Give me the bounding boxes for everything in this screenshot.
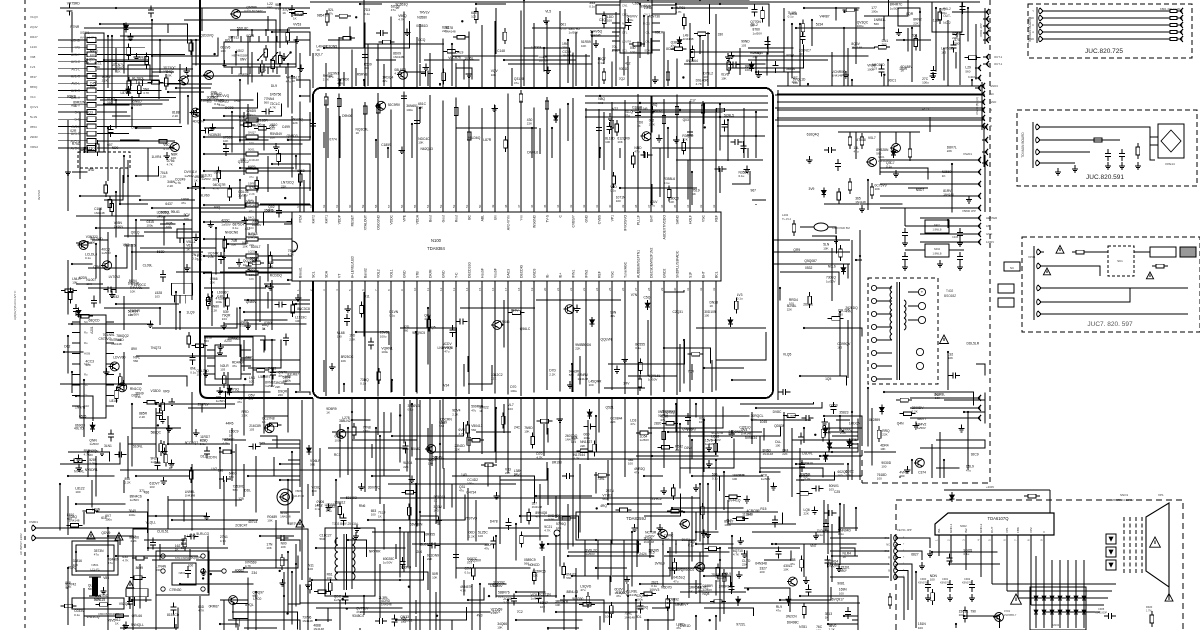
svg-text:4V3: 4V3 <box>477 614 483 618</box>
svg-text:C25: C25 <box>834 490 840 494</box>
svg-text:62: 62 <box>322 204 326 208</box>
svg-text:4.7K: 4.7K <box>544 529 550 533</box>
svg-text:Q2D3VQ: Q2D3VQ <box>200 34 214 38</box>
svg-text:560: 560 <box>181 546 186 550</box>
svg-text:LOUTA: LOUTA <box>622 40 631 44</box>
svg-text:DN9: DN9 <box>131 126 138 130</box>
svg-text:Q4734: Q4734 <box>466 491 476 495</box>
svg-text:1N4148: 1N4148 <box>943 192 954 196</box>
svg-text:2.2K: 2.2K <box>548 517 554 521</box>
svg-text:1N4148: 1N4148 <box>381 603 392 607</box>
svg-text:100u: 100u <box>406 108 413 112</box>
svg-text:NC: NC <box>990 92 994 96</box>
svg-text:2.2K: 2.2K <box>549 372 555 376</box>
svg-text:Q03: Q03 <box>683 118 689 122</box>
svg-text:0.1u: 0.1u <box>886 165 892 169</box>
svg-text:2.2K: 2.2K <box>172 114 178 118</box>
svg-text:41: 41 <box>595 204 599 208</box>
svg-text:1.7M: 1.7M <box>1146 610 1151 613</box>
svg-text:128R: 128R <box>933 18 942 22</box>
svg-text:VR9: VR9 <box>163 390 170 394</box>
svg-text:Q65: Q65 <box>259 441 265 445</box>
svg-text:100u: 100u <box>256 122 263 126</box>
svg-text:100: 100 <box>607 19 612 23</box>
svg-text:JUC.820.591: JUC.820.591 <box>1086 174 1124 181</box>
svg-text:SNO1: SNO1 <box>1120 493 1129 497</box>
svg-text:1u/50V: 1u/50V <box>89 442 99 446</box>
svg-text:93Q: 93Q <box>214 206 221 210</box>
svg-text:103: 103 <box>220 367 225 371</box>
svg-text:RESET: RESET <box>351 215 355 226</box>
svg-text:4.7K: 4.7K <box>733 553 739 557</box>
svg-text:GND: GND <box>585 214 589 222</box>
svg-text:D6Q4: D6Q4 <box>248 166 257 170</box>
svg-text:1N4148: 1N4148 <box>615 591 626 595</box>
svg-text:22K: 22K <box>455 447 460 451</box>
svg-text:100: 100 <box>789 301 794 305</box>
svg-text:10K: 10K <box>242 244 247 248</box>
svg-text:1K: 1K <box>175 548 179 552</box>
svg-text:D2620Q: D2620Q <box>636 605 649 609</box>
svg-text:8L2899: 8L2899 <box>869 418 880 422</box>
svg-text:1u/50V: 1u/50V <box>640 438 650 442</box>
svg-text:47u: 47u <box>108 561 113 565</box>
svg-text:100u: 100u <box>627 18 634 22</box>
svg-text:XS200 (B)~(-0): XS200 (B)~(-0) <box>975 97 979 115</box>
svg-text:C900: C900 <box>920 577 927 581</box>
svg-text:27: 27 <box>634 287 638 291</box>
svg-text:L87844: L87844 <box>121 91 132 95</box>
svg-text:13: 13 <box>452 287 456 291</box>
svg-text:1Q5: 1Q5 <box>825 377 831 381</box>
svg-text:100: 100 <box>616 199 621 203</box>
svg-text:47u: 47u <box>776 609 781 613</box>
svg-text:A: A <box>1032 30 1034 34</box>
svg-text:N781: N781 <box>799 625 807 629</box>
svg-text:CTL: CTL <box>622 31 628 35</box>
svg-text:RN6: RN6 <box>359 504 366 508</box>
svg-text:100: 100 <box>90 85 95 89</box>
svg-text:2937LV: 2937LV <box>198 403 210 407</box>
svg-text:560: 560 <box>799 478 804 482</box>
svg-text:100u: 100u <box>363 429 370 433</box>
svg-text:VsubF: VsubF <box>494 268 498 278</box>
svg-text:103: 103 <box>508 407 513 411</box>
svg-text:9NNQLL: 9NNQLL <box>131 623 144 627</box>
svg-text:3V9: 3V9 <box>809 187 815 191</box>
svg-text:100u: 100u <box>605 615 612 619</box>
svg-text:103: 103 <box>197 373 202 377</box>
svg-text:22K: 22K <box>427 557 432 561</box>
svg-text:D6498C: D6498C <box>787 621 800 625</box>
svg-text:100u: 100u <box>940 11 947 15</box>
svg-text:22K: 22K <box>533 573 538 577</box>
svg-text:1N4148: 1N4148 <box>248 235 259 239</box>
svg-text:9LV60: 9LV60 <box>200 194 209 198</box>
svg-text:0.1u: 0.1u <box>589 5 595 9</box>
svg-text:47u: 47u <box>580 588 585 592</box>
svg-text:10K: 10K <box>556 526 561 530</box>
svg-text:44R6: 44R6 <box>226 421 234 425</box>
svg-text:10K: 10K <box>783 568 788 572</box>
svg-text:TunerAGC: TunerAGC <box>624 261 628 278</box>
svg-text:38466: 38466 <box>786 67 795 71</box>
svg-text:10K: 10K <box>249 277 254 281</box>
svg-text:1K: 1K <box>292 79 296 83</box>
svg-text:REF: REF <box>715 215 719 222</box>
svg-text:1045: 1045 <box>760 420 768 424</box>
svg-text:40: 40 <box>608 204 612 208</box>
svg-text:113949: 113949 <box>742 513 753 517</box>
svg-text:18: 18 <box>517 287 521 291</box>
svg-text:61: 61 <box>335 204 339 208</box>
svg-text:1K: 1K <box>479 409 483 413</box>
svg-text:RCDDQ: RCDDQ <box>270 274 283 278</box>
svg-text:2L3RL: 2L3RL <box>379 596 389 600</box>
svg-text:560: 560 <box>267 6 272 10</box>
svg-text:V1C: V1C <box>30 95 37 99</box>
svg-text:VRN2: VRN2 <box>30 145 38 149</box>
svg-text:607: 607 <box>107 143 113 147</box>
svg-text:1N4148: 1N4148 <box>131 103 142 107</box>
svg-text:AV1/S/2: AV1/S/2 <box>37 190 41 200</box>
svg-text:1K: 1K <box>692 192 696 196</box>
svg-text:22K: 22K <box>575 347 580 351</box>
svg-text:1N4148: 1N4148 <box>280 514 291 518</box>
svg-text:DR27: DR27 <box>30 35 38 39</box>
svg-text:D9N06: D9N06 <box>342 114 352 118</box>
svg-text:JUC7. 820. 597: JUC7. 820. 597 <box>1087 321 1133 328</box>
svg-text:AV1-R: AV1-R <box>71 75 81 79</box>
svg-text:43: 43 <box>569 204 573 208</box>
svg-text:VLQ5: VLQ5 <box>783 353 792 357</box>
svg-text:55: 55 <box>413 204 417 208</box>
svg-text:C: C <box>1032 23 1034 27</box>
svg-text:103: 103 <box>941 50 946 54</box>
svg-text:0.1u: 0.1u <box>190 370 196 374</box>
svg-text:2.2K: 2.2K <box>503 600 509 604</box>
svg-text:0.1u: 0.1u <box>74 613 80 617</box>
svg-text:100u: 100u <box>630 50 637 54</box>
svg-text:92C9: 92C9 <box>971 453 979 457</box>
svg-text:560: 560 <box>88 587 93 591</box>
svg-text:768312: 768312 <box>334 501 345 505</box>
svg-text:10: 10 <box>413 287 417 291</box>
svg-text:14D: 14D <box>461 473 468 477</box>
svg-text:Ro: Ro <box>84 373 88 377</box>
svg-text:1K: 1K <box>689 589 693 593</box>
svg-text:NV5DR1: NV5DR1 <box>85 468 98 472</box>
svg-text:103: 103 <box>197 257 202 261</box>
svg-text:0.1u: 0.1u <box>364 12 370 16</box>
svg-text:0.1u: 0.1u <box>326 509 332 513</box>
svg-text:K801 4W-12-2M: K801 4W-12-2M <box>1160 7 1181 11</box>
svg-text:AVO-L: AVO-L <box>71 147 81 151</box>
svg-text:0.1u: 0.1u <box>275 7 281 11</box>
svg-text:L402: L402 <box>782 213 789 217</box>
svg-text:QR6: QR6 <box>93 265 100 269</box>
svg-text:2.2K: 2.2K <box>323 78 329 82</box>
svg-text:4.7K: 4.7K <box>394 72 400 76</box>
svg-text:1K: 1K <box>710 304 714 308</box>
svg-text:407L4: 407L4 <box>248 520 257 524</box>
svg-text:4CL078: 4CL078 <box>711 431 723 435</box>
svg-text:560: 560 <box>264 101 269 105</box>
svg-text:1K: 1K <box>169 466 173 470</box>
svg-text:OUT-1: OUT-1 <box>994 55 1003 59</box>
svg-text:EHT: EHT <box>650 215 654 222</box>
svg-text:47508: 47508 <box>857 138 866 142</box>
svg-text:560: 560 <box>471 428 476 432</box>
svg-text:100u: 100u <box>724 523 731 527</box>
svg-text:2424: 2424 <box>639 552 647 556</box>
svg-text:N801: N801 <box>179 571 186 575</box>
svg-text:95LD6Q: 95LD6Q <box>468 136 481 140</box>
svg-text:124C: 124C <box>30 45 38 49</box>
svg-text:47u: 47u <box>514 81 519 85</box>
svg-text:33: 33 <box>699 204 703 208</box>
svg-text:QD839: QD839 <box>774 424 785 428</box>
svg-text:AV2-V/Yin: AV2-V/Yin <box>507 215 511 230</box>
svg-text:VNLLCQ: VNLLCQ <box>86 615 100 619</box>
svg-text:8VQL: 8VQL <box>245 603 254 607</box>
svg-text:IFIN2: IFIN2 <box>585 270 589 278</box>
svg-text:0.1u: 0.1u <box>838 532 844 536</box>
svg-text:6VQ917: 6VQ917 <box>832 598 844 602</box>
svg-text:64N348: 64N348 <box>755 561 767 565</box>
svg-text:1N4148: 1N4148 <box>590 33 601 37</box>
svg-text:G: G <box>888 562 890 566</box>
svg-text:4.7K: 4.7K <box>398 18 404 22</box>
svg-text:47u: 47u <box>424 317 429 321</box>
svg-text:47u: 47u <box>382 79 387 83</box>
svg-text:34: 34 <box>686 204 690 208</box>
svg-text:Ro: Ro <box>84 341 88 345</box>
svg-text:560: 560 <box>566 576 571 580</box>
svg-text:56: 56 <box>400 204 404 208</box>
svg-text:739L: 739L <box>597 477 605 481</box>
svg-text:40662: 40662 <box>235 568 244 572</box>
svg-text:1K: 1K <box>356 131 360 135</box>
svg-text:10K: 10K <box>130 289 135 293</box>
svg-text:1u/50V: 1u/50V <box>705 442 715 446</box>
svg-text:38: 38 <box>634 204 638 208</box>
svg-text:1N4148: 1N4148 <box>442 345 453 349</box>
svg-text:4.7K: 4.7K <box>220 539 226 543</box>
svg-text:31: 31 <box>686 287 690 291</box>
svg-text:0.1u: 0.1u <box>240 324 246 328</box>
svg-text:47u: 47u <box>249 209 254 213</box>
svg-text:LV70N2: LV70N2 <box>109 275 121 279</box>
svg-text:47u: 47u <box>248 397 253 401</box>
svg-text:TL-15-2: TL-15-2 <box>782 217 792 221</box>
svg-text:V0L7: V0L7 <box>868 136 876 140</box>
svg-text:560: 560 <box>320 537 325 541</box>
svg-text:VN7: VN7 <box>810 544 817 548</box>
svg-text:HsubF: HsubF <box>481 268 485 278</box>
svg-text:100: 100 <box>589 383 594 387</box>
svg-text:24: 24 <box>595 287 599 291</box>
svg-text:Uin: Uin <box>494 215 498 220</box>
svg-text:V: V <box>1042 531 1046 533</box>
svg-text:N5V82: N5V82 <box>411 447 421 451</box>
svg-text:K802 JPP: K802 JPP <box>979 23 983 36</box>
svg-text:10K: 10K <box>341 359 346 363</box>
svg-text:N3580: N3580 <box>417 15 427 19</box>
svg-text:1K: 1K <box>115 622 119 626</box>
svg-text:V5Q: V5Q <box>123 243 130 247</box>
svg-text:0.1u: 0.1u <box>561 26 567 30</box>
svg-text:VC2: VC2 <box>686 428 693 432</box>
svg-text:616Q4Q: 616Q4Q <box>807 133 820 137</box>
svg-text:39: 39 <box>621 204 625 208</box>
svg-text:32: 32 <box>712 204 716 208</box>
svg-text:560: 560 <box>268 370 273 374</box>
svg-text:4.7K: 4.7K <box>337 81 343 85</box>
svg-text:Y/G: Y/G <box>75 46 81 50</box>
svg-text:669Q3: 669Q3 <box>75 423 85 427</box>
svg-text:IN2: IN2 <box>964 528 968 533</box>
svg-text:103: 103 <box>471 15 476 19</box>
svg-text:5LRLCQ: 5LRLCQ <box>196 532 209 536</box>
svg-text:2.2K: 2.2K <box>94 65 100 69</box>
svg-text:0.1u: 0.1u <box>649 554 655 558</box>
svg-text:9722L: 9722L <box>736 623 745 627</box>
svg-text:47u: 47u <box>673 579 678 583</box>
svg-text:560: 560 <box>954 42 959 46</box>
svg-text:1K: 1K <box>514 473 518 477</box>
svg-text:7R0: 7R0 <box>234 99 240 103</box>
svg-text:46: 46 <box>530 204 534 208</box>
svg-text:NC8N30: NC8N30 <box>208 133 221 137</box>
svg-text:L278: L278 <box>342 416 350 420</box>
svg-text:22K: 22K <box>111 67 116 71</box>
svg-text:65DV: 65DV <box>653 109 662 113</box>
svg-text:92C9RV: 92C9RV <box>388 103 401 107</box>
svg-text:VSC: VSC <box>611 270 615 278</box>
svg-text:6932: 6932 <box>112 295 120 299</box>
svg-text:1K: 1K <box>293 17 297 21</box>
svg-text:VP1: VP1 <box>611 215 615 222</box>
svg-text:AV3-Y: AV3-Y <box>71 53 81 57</box>
svg-text:47u: 47u <box>630 422 635 426</box>
svg-text:IFVO/SVO: IFVO/SVO <box>624 215 628 231</box>
svg-text:3N2CN: 3N2CN <box>786 615 797 619</box>
svg-text:0.1u: 0.1u <box>739 174 745 178</box>
svg-text:L1473Q: L1473Q <box>83 146 95 150</box>
svg-text:0.1u: 0.1u <box>712 476 718 480</box>
svg-text:22K: 22K <box>491 377 496 381</box>
svg-text:1u/50V: 1u/50V <box>890 6 900 10</box>
svg-text:1u/50V: 1u/50V <box>826 279 836 283</box>
svg-text:R920: R920 <box>1146 605 1153 609</box>
svg-text:28: 28 <box>647 287 651 291</box>
svg-text:L2D03: L2D03 <box>532 46 542 50</box>
svg-text:1N4148: 1N4148 <box>111 342 122 346</box>
svg-text:10K: 10K <box>721 76 726 80</box>
svg-text:10K: 10K <box>281 545 286 549</box>
svg-text:100: 100 <box>312 489 317 493</box>
svg-text:T-C: T-C <box>455 272 459 278</box>
svg-text:9LLC1: 9LLC1 <box>403 619 413 623</box>
svg-text:1K: 1K <box>186 247 190 251</box>
svg-text:VR75RD: VR75RD <box>67 1 81 5</box>
svg-text:L87R: L87R <box>483 138 492 142</box>
svg-text:1K: 1K <box>117 70 121 74</box>
svg-text:VSC: VSC <box>702 214 706 222</box>
svg-text:560: 560 <box>403 329 408 333</box>
svg-text:GND: GND <box>884 549 890 553</box>
svg-text:1u/50V: 1u/50V <box>201 177 211 181</box>
svg-text:23: 23 <box>582 287 586 291</box>
svg-text:PHILIPOR: PHILIPOR <box>292 494 304 498</box>
svg-text:1N4148: 1N4148 <box>562 53 573 57</box>
svg-text:KBN078U: KBN078U <box>962 582 973 585</box>
svg-text:1R5756: 1R5756 <box>270 92 282 96</box>
svg-text:+200V: +200V <box>986 485 994 489</box>
svg-text:VOL1: VOL1 <box>390 269 394 278</box>
svg-text:DECSDEM/S2F1N2: DECSDEM/S2F1N2 <box>650 248 654 278</box>
svg-text:N0L6: N0L6 <box>828 265 836 269</box>
svg-text:CN1: CN1 <box>622 4 628 8</box>
svg-text:NN3CN6: NN3CN6 <box>225 231 238 235</box>
svg-text:4.7K: 4.7K <box>245 564 251 568</box>
svg-text:B: B <box>990 108 992 112</box>
svg-text:100: 100 <box>371 512 376 516</box>
svg-text:1u/50V: 1u/50V <box>916 426 926 430</box>
svg-text:2.2K: 2.2K <box>469 534 475 538</box>
svg-text:QR9QC0: QR9QC0 <box>681 568 695 572</box>
svg-text:560: 560 <box>84 61 89 65</box>
svg-text:KAY2: KAY2 <box>312 215 316 224</box>
svg-text:0RR67: 0RR67 <box>209 605 219 609</box>
svg-text:287N: 287N <box>606 489 615 493</box>
svg-text:150R: 150R <box>899 67 908 71</box>
svg-text:1K: 1K <box>396 6 400 10</box>
svg-text:C17: C17 <box>690 98 696 102</box>
svg-text:100: 100 <box>839 591 844 595</box>
svg-text:1RV: 1RV <box>623 381 630 385</box>
svg-text:N462: N462 <box>934 247 941 251</box>
svg-text:9081: 9081 <box>837 581 845 585</box>
svg-text:CCQ: CCQ <box>418 38 426 42</box>
svg-text:560: 560 <box>229 475 234 479</box>
svg-text:0.1u: 0.1u <box>135 395 141 399</box>
svg-text:100u: 100u <box>636 598 643 602</box>
svg-text:1u/50V: 1u/50V <box>383 561 393 565</box>
svg-text:9537: 9537 <box>30 75 37 79</box>
svg-text:1u/50V: 1u/50V <box>252 223 262 227</box>
svg-text:1u/50V: 1u/50V <box>265 384 275 388</box>
svg-text:6Q864: 6Q864 <box>191 556 201 560</box>
svg-text:4.7K: 4.7K <box>675 10 681 14</box>
svg-text:V33D0: V33D0 <box>151 389 161 393</box>
svg-text:1u/50V: 1u/50V <box>221 222 231 226</box>
svg-text:47u: 47u <box>181 201 186 205</box>
svg-text:1LVR4: 1LVR4 <box>152 155 162 159</box>
svg-text:100u: 100u <box>129 513 136 517</box>
svg-text:10C8: 10C8 <box>789 12 797 16</box>
svg-text:1K: 1K <box>282 11 286 15</box>
svg-text:C2QN5: C2QN5 <box>326 45 337 49</box>
svg-text:1N4148: 1N4148 <box>393 55 404 59</box>
svg-text:IE+: IE+ <box>559 273 563 278</box>
svg-text:560: 560 <box>524 562 529 566</box>
svg-text:3D072Q: 3D072Q <box>368 486 381 490</box>
svg-text:4Y01: 4Y01 <box>1004 609 1011 613</box>
svg-text:45: 45 <box>543 204 547 208</box>
svg-text:8CCRQ7: 8CCRQ7 <box>185 441 199 445</box>
